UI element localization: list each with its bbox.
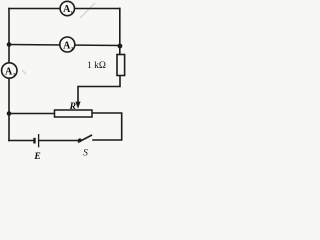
node junction left A2 — [7, 42, 12, 47]
wire rheostat right down to switch — [92, 113, 122, 140]
scan smudge near A3 — [22, 70, 26, 74]
wire top (left corner to right corner) — [9, 8, 120, 10]
ammeter A1 — [60, 1, 74, 15]
svg-text:S: S — [83, 149, 88, 159]
wire bottom left to battery — [9, 140, 33, 142]
wire right upper vertical — [119, 9, 121, 55]
rheostat R body — [55, 110, 93, 117]
switch S lever — [79, 135, 92, 142]
wire A2 branch horizontal — [9, 45, 120, 46]
svg-text:A: A — [5, 66, 13, 77]
wire left vertical — [8, 9, 10, 141]
node junction left rheostat — [7, 111, 12, 116]
switch S pivot — [78, 138, 82, 142]
ammeter A2 — [60, 37, 75, 52]
svg-text:R: R — [69, 102, 76, 112]
svg-text:1 kΩ: 1 kΩ — [87, 61, 106, 71]
svg-text:E: E — [33, 152, 40, 162]
wire battery to switch — [40, 140, 80, 142]
rheostat wiper arrowhead — [75, 102, 80, 109]
battery E plate long — [38, 134, 40, 147]
svg-text:A: A — [63, 40, 71, 51]
resistor 1 kOhm body — [117, 55, 125, 76]
wire rheostat left — [9, 113, 55, 115]
scan smudge near A1 — [80, 3, 95, 18]
ammeter A3 — [2, 63, 17, 78]
wire resistor bottom to wiper — [78, 76, 120, 103]
node junction right resistor top — [118, 44, 123, 49]
battery E plate short — [33, 138, 35, 144]
